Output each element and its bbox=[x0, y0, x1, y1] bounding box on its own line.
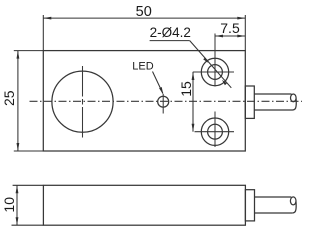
cable end loop (side view) bbox=[290, 197, 296, 205]
cable top line (top view) bbox=[254, 93, 291, 95]
arrowhead dim15 top bbox=[192, 72, 195, 80]
arrowhead dim50 right bbox=[237, 17, 245, 20]
dim 25 top extension line bbox=[14, 50, 44, 52]
mounting hole top inner bbox=[208, 65, 223, 80]
cable end loop (top view) bbox=[291, 94, 297, 102]
mounting hole top outer bbox=[201, 58, 228, 85]
cable gland (top view) bbox=[245, 86, 254, 118]
dim 7.5 line bbox=[215, 35, 245, 37]
dim 25 bottom extension line bbox=[14, 150, 44, 152]
hole bottom vertical centerline bbox=[214, 112, 216, 148]
leader underline 2-Ø4.2 bbox=[150, 40, 190, 42]
arrowhead dim25 bottom bbox=[17, 143, 20, 151]
cable bottom line (top view) bbox=[254, 109, 292, 111]
big circle vertical centerline bbox=[82, 66, 84, 138]
svg-text:LED: LED bbox=[132, 61, 153, 73]
svg-text:7.5: 7.5 bbox=[220, 20, 240, 36]
arrowhead dim50 left bbox=[43, 17, 51, 20]
dim 10 line bbox=[16, 185, 18, 225]
svg-text:15: 15 bbox=[178, 81, 194, 97]
cable end right outline (top view) bbox=[293, 99, 297, 111]
sensor body outline (top view) bbox=[43, 51, 245, 151]
arrowhead hole leader lower bbox=[222, 80, 227, 85]
arrowhead LED leader bbox=[159, 87, 163, 95]
mounting hole bottom inner bbox=[208, 124, 223, 139]
leader diagonal through top hole bbox=[190, 41, 232, 88]
arrowhead dim10 bottom bbox=[16, 217, 19, 225]
dim 10 top extension line bbox=[13, 184, 44, 186]
dim 15 line bbox=[192, 72, 194, 132]
cable bottom line (side view) bbox=[255, 212, 293, 214]
LED leader line bbox=[153, 72, 163, 94]
cable end right outline (side view) bbox=[292, 202, 296, 214]
dim 25 line bbox=[17, 51, 19, 151]
arrowhead dim7.5 left bbox=[215, 35, 223, 38]
sensor body outline (side view) bbox=[43, 185, 245, 225]
dim 10 bottom extension line bbox=[12, 224, 44, 226]
hole top vertical centerline bbox=[214, 34, 216, 87]
dim 50 line bbox=[43, 17, 245, 19]
svg-text:50: 50 bbox=[136, 4, 152, 20]
arrowhead dim25 top bbox=[17, 51, 20, 59]
dim 50 right extension line bbox=[244, 15, 246, 51]
svg-text:25: 25 bbox=[1, 90, 17, 106]
hole bottom horizontal centerline bbox=[195, 131, 235, 133]
arrowhead dim10 top bbox=[16, 185, 19, 193]
cable gland (side view) bbox=[245, 190, 254, 221]
LED hole bbox=[158, 96, 169, 107]
sensing face circle bbox=[52, 71, 113, 132]
mounting hole bottom outer bbox=[201, 118, 228, 145]
dim 50 left extension line bbox=[42, 15, 44, 51]
arrowhead dim15 bottom bbox=[192, 124, 195, 132]
svg-text:2-Ø4.2: 2-Ø4.2 bbox=[150, 25, 191, 40]
arrowhead dim7.5 right bbox=[237, 35, 245, 38]
hole top horizontal centerline bbox=[193, 71, 234, 73]
arrowhead hole leader upper bbox=[203, 58, 208, 63]
LED hole vertical tick bbox=[162, 94, 164, 114]
cable top line (side view) bbox=[255, 196, 292, 198]
svg-text:10: 10 bbox=[1, 197, 17, 213]
main horizontal centerline (dash-dot axis) bbox=[30, 100, 303, 102]
